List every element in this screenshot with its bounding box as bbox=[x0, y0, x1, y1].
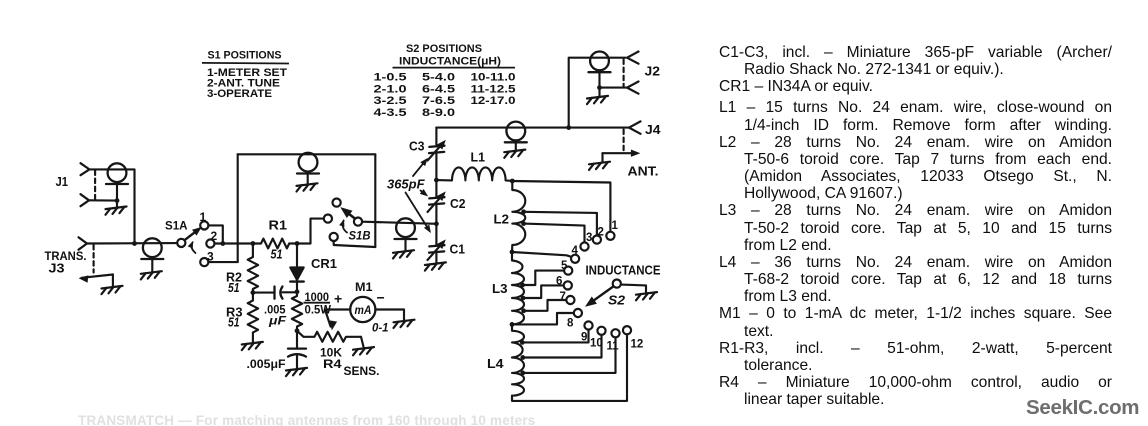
node L2 tap1 bbox=[521, 209, 526, 214]
wire S1B pole to C-chain bbox=[362, 222, 436, 224]
parts list text column bbox=[719, 44, 1112, 409]
svg-text:C3: C3 bbox=[409, 140, 425, 154]
svg-text:J3: J3 bbox=[49, 261, 65, 276]
wire C1 to ground bbox=[435, 251, 437, 262]
arrow to antenna bbox=[631, 150, 641, 157]
svg-text:51: 51 bbox=[271, 247, 283, 262]
faint caption bottom bbox=[78, 413, 536, 426]
svg-text:11: 11 bbox=[607, 341, 620, 353]
switch S1B contact 1 bbox=[333, 199, 341, 207]
svg-text:L4: L4 bbox=[487, 356, 504, 371]
resistor 1000 0.5W bbox=[292, 292, 302, 331]
top rail to J4 bbox=[436, 127, 629, 129]
node R1 left junction bbox=[251, 241, 256, 246]
wire J2 lower prong bbox=[600, 87, 628, 89]
svg-text:3: 3 bbox=[207, 250, 214, 264]
node J1 shield junction bbox=[115, 198, 120, 203]
svg-text:8: 8 bbox=[567, 318, 574, 330]
inductor L2 bbox=[512, 181, 525, 252]
ground under bus insulator bbox=[141, 271, 162, 279]
wire S1B contact3 bottom bbox=[334, 241, 376, 247]
insulator on top rail bbox=[297, 153, 319, 174]
svg-text:6: 6 bbox=[556, 276, 562, 288]
watermark bbox=[1026, 396, 1140, 420]
wire S1A contact3 stub bbox=[208, 261, 237, 263]
svg-text:6-4.5: 6-4.5 bbox=[422, 83, 455, 95]
node R1 right junction bbox=[295, 241, 300, 246]
wire L4 bottom to contact12 bbox=[512, 334, 627, 401]
wire J3 dashed shield bbox=[93, 245, 95, 273]
svg-text:CR1: CR1 bbox=[311, 256, 337, 271]
ground under C1 bbox=[425, 262, 446, 270]
switch S2 contact 7 bbox=[566, 296, 574, 304]
capacitor C2 variable bbox=[429, 197, 444, 198]
svg-text:J4: J4 bbox=[645, 122, 661, 137]
connector J1 lower prong bbox=[81, 194, 90, 206]
wire C-chain vertical top bbox=[435, 204, 437, 224]
svg-text:9: 9 bbox=[581, 332, 587, 344]
wire riser rail to S1B contact3 bbox=[374, 154, 376, 247]
wire ANT ground stem bbox=[601, 153, 603, 161]
svg-text:3-OPERATE: 3-OPERATE bbox=[207, 88, 272, 100]
wire L2-top to contact1 bbox=[512, 181, 610, 232]
insulator on J1 wire bbox=[106, 163, 128, 184]
connector J2 upper prong bbox=[627, 52, 639, 64]
svg-text:S1 POSITIONS: S1 POSITIONS bbox=[208, 50, 282, 62]
svg-text:R4: R4 bbox=[323, 357, 342, 371]
switch S2 pole contact bbox=[613, 280, 621, 288]
wire R1 to S1B contact2 bbox=[297, 219, 324, 244]
wire riser to J2 bbox=[569, 58, 626, 128]
svg-text:J2: J2 bbox=[645, 64, 661, 79]
wire L3 tap2 to contact6 bbox=[523, 285, 564, 298]
switch S1B contact 3 bbox=[330, 233, 338, 241]
wire R4 to ground bbox=[361, 337, 364, 347]
svg-text:5-4.0: 5-4.0 bbox=[422, 72, 455, 84]
svg-text:12-17.0: 12-17.0 bbox=[471, 95, 516, 107]
capacitor .005uF meter bypass bbox=[296, 331, 298, 349]
svg-text:3-2.5: 3-2.5 bbox=[374, 95, 407, 107]
wire riser S1A c3 to top rail bbox=[237, 154, 239, 262]
svg-text:+: + bbox=[334, 291, 342, 307]
switch S2 contact 11 bbox=[611, 329, 619, 337]
node J2 shield junction bbox=[597, 85, 602, 90]
svg-text:M1: M1 bbox=[355, 280, 373, 294]
wire insulator stem bbox=[515, 142, 517, 149]
wire insulator stem bbox=[116, 184, 118, 206]
label arrow 365pF to C2 bbox=[421, 191, 426, 195]
switch S1A contact 2 bbox=[206, 239, 214, 247]
svg-text:INDUCTANCE: INDUCTANCE bbox=[586, 264, 661, 278]
svg-text:51: 51 bbox=[228, 315, 240, 330]
switch S1A contact 1 bbox=[200, 221, 208, 229]
switch S2 contact 5 bbox=[564, 267, 572, 275]
svg-text:8-9.0: 8-9.0 bbox=[422, 107, 455, 119]
switch S1B rotation arrow bbox=[343, 221, 347, 233]
svg-text:5: 5 bbox=[561, 260, 568, 272]
resistor R3 bbox=[248, 293, 258, 342]
svg-text:2: 2 bbox=[598, 227, 604, 239]
wire bus from contact2 to R1 bbox=[215, 242, 253, 244]
node L2 tap2 bbox=[521, 221, 526, 226]
ground under J1 bbox=[106, 207, 127, 215]
ground under R4 bbox=[353, 347, 374, 355]
wire C3 bottom bbox=[435, 153, 437, 181]
node junction J1 drop on bus bbox=[132, 241, 137, 246]
insulator on main bus bbox=[141, 238, 163, 259]
svg-text:10-11.0: 10-11.0 bbox=[471, 72, 516, 84]
svg-text:.005μF: .005μF bbox=[247, 357, 286, 371]
wire wiper to meter bbox=[325, 308, 350, 310]
svg-text:R1: R1 bbox=[269, 218, 288, 233]
node L4 tap1 bbox=[520, 340, 525, 345]
wire L3 tap1 to contact5 bbox=[523, 271, 565, 285]
svg-text:7-6.5: 7-6.5 bbox=[422, 95, 455, 107]
node L1 junction bbox=[434, 178, 439, 183]
capacitor .005uF coupling bbox=[273, 287, 275, 299]
svg-text:7: 7 bbox=[560, 291, 566, 303]
node L1 L2 junction bbox=[510, 179, 515, 184]
svg-text:SENS.: SENS. bbox=[344, 364, 380, 378]
wire meter minus to ground bbox=[375, 310, 404, 320]
node L3 tap3 bbox=[521, 308, 526, 313]
ground under bypass cap bbox=[286, 368, 307, 376]
wire node to capacitor bbox=[253, 292, 275, 294]
arrow to transmitter bbox=[78, 274, 88, 282]
node contact1 bus junction bbox=[220, 241, 225, 246]
wire C2 to L1 node bbox=[435, 180, 437, 197]
wire C3 top to rail corner bbox=[435, 128, 437, 146]
wire L2-bottom to contact4 bbox=[512, 252, 572, 257]
node X junction bbox=[295, 289, 300, 294]
wire J4 dashed shield bbox=[623, 130, 625, 152]
wire insulator stem bbox=[598, 72, 600, 96]
node L2 L3 junction bbox=[510, 250, 515, 255]
table S1 underline bbox=[202, 62, 289, 65]
wire arrow stem down bbox=[112, 275, 114, 286]
ground under meter bbox=[394, 320, 415, 328]
insulator on J2 wire bbox=[589, 52, 611, 73]
svg-text:4-3.5: 4-3.5 bbox=[374, 107, 407, 119]
switch S1A wiper bbox=[185, 230, 199, 240]
switch S1B pole contact bbox=[354, 218, 362, 226]
wire S1A contact1 to bus bbox=[208, 225, 222, 243]
resistor R2 bbox=[248, 244, 258, 293]
ground under J2 bbox=[587, 96, 608, 104]
connector J2 lower prong bbox=[627, 82, 639, 94]
ground under R3 bbox=[242, 342, 263, 350]
diode CR1 bbox=[296, 244, 298, 268]
node L4 tap3 bbox=[520, 371, 525, 376]
switch S1A contact 3 bbox=[200, 258, 208, 266]
wire J1 lower prong to stem bbox=[89, 199, 117, 201]
wire J1 dashed shield bbox=[94, 171, 96, 200]
ground under J3 arrow bbox=[102, 286, 123, 294]
ground under S2 bbox=[636, 292, 657, 300]
svg-text:L3: L3 bbox=[492, 281, 508, 296]
svg-text:C1: C1 bbox=[450, 243, 466, 257]
svg-text:0-1: 0-1 bbox=[372, 323, 389, 335]
inductor L4 bbox=[512, 324, 524, 395]
insulator on S1B output bbox=[395, 218, 417, 239]
wire L4 tap1 to contact9 bbox=[522, 330, 588, 343]
svg-text:12: 12 bbox=[631, 339, 644, 351]
svg-text:J1: J1 bbox=[56, 174, 69, 189]
insulator on top rail right bbox=[505, 122, 527, 143]
svg-text:mA: mA bbox=[355, 303, 372, 317]
svg-text:10: 10 bbox=[590, 338, 603, 350]
wire J2 dashed shield bbox=[623, 60, 625, 87]
node L3 tap1 bbox=[520, 283, 525, 288]
switch S2 contact 1 bbox=[606, 232, 614, 240]
wire S2 pole to ground bbox=[621, 285, 646, 292]
switch S1A rotation arrow bbox=[191, 242, 195, 253]
wire to-transmitter arrow line bbox=[82, 275, 113, 278]
node meter-pot junction bbox=[295, 328, 300, 333]
wire L2 tap1 to contact2 bbox=[524, 212, 597, 236]
svg-text:L1: L1 bbox=[471, 150, 486, 165]
switch S2 contact 9 bbox=[584, 321, 592, 329]
table S2 underline bbox=[393, 67, 516, 69]
svg-text:1-0.5: 1-0.5 bbox=[374, 72, 407, 84]
ground under S1B insulator bbox=[393, 250, 414, 258]
switch S2 contact 4 bbox=[571, 255, 579, 263]
svg-text:11-12.5: 11-12.5 bbox=[471, 83, 516, 95]
inductor L1 bbox=[436, 167, 512, 181]
svg-text:365pF: 365pF bbox=[387, 177, 426, 192]
connector J3 prong bbox=[79, 237, 88, 249]
wire J1 top to corner bbox=[89, 169, 134, 243]
connector J1 upper prong bbox=[81, 163, 90, 175]
svg-text:μF: μF bbox=[268, 314, 287, 328]
inductor L3 bbox=[512, 252, 524, 324]
fraction bar 1000/0.5W bbox=[304, 302, 331, 304]
svg-text:S2: S2 bbox=[608, 293, 626, 308]
ground under ANT bbox=[589, 162, 610, 170]
wire L4 tap3 to contact11 bbox=[523, 337, 616, 373]
capacitor C3 variable bbox=[429, 146, 444, 147]
switch S1B wiper bbox=[344, 210, 356, 219]
potentiometer R4 wiper arrow bbox=[325, 310, 331, 327]
switch S2 contact 10 bbox=[597, 327, 605, 335]
svg-text:2-1.0: 2-1.0 bbox=[374, 83, 407, 95]
node J2 riser junction bbox=[566, 125, 571, 130]
svg-text:S1B: S1B bbox=[349, 229, 371, 243]
svg-text:ANT.: ANT. bbox=[628, 164, 659, 179]
label arrow 365pF to C3 bbox=[413, 161, 426, 176]
meter M1 bbox=[350, 297, 375, 322]
switch S1A pole contact bbox=[177, 239, 185, 247]
wire L2 tap2 to contact3 bbox=[524, 224, 585, 243]
wire capacitor to node X bbox=[283, 291, 298, 293]
switch S2 contact 6 bbox=[564, 281, 572, 289]
wire top rail to S1B bbox=[238, 153, 376, 155]
svg-text:3: 3 bbox=[586, 232, 592, 244]
svg-text:S2 POSITIONS: S2 POSITIONS bbox=[406, 43, 482, 55]
wire ANT line bbox=[603, 152, 637, 154]
wire main bus J3 to S1A pole bbox=[87, 242, 177, 245]
resistor R1 bbox=[253, 239, 297, 249]
switch S2 contact 12 bbox=[623, 326, 631, 334]
svg-text:4: 4 bbox=[572, 245, 579, 257]
wire insulator stem bbox=[151, 259, 153, 271]
wire L3 tap3 to contact7 bbox=[524, 300, 567, 311]
node R2 R3 junction bbox=[251, 290, 256, 295]
svg-text:0.5W: 0.5W bbox=[305, 303, 332, 317]
switch S1B contact 2 bbox=[324, 215, 332, 223]
ground under rail insulator bbox=[297, 183, 318, 191]
potentiometer R4 bbox=[297, 331, 361, 342]
node L3 tap2 bbox=[521, 296, 526, 301]
svg-text:−: − bbox=[377, 290, 385, 306]
switch S2 contact 2 bbox=[593, 236, 601, 244]
svg-text:INDUCTANCE(μH): INDUCTANCE(μH) bbox=[399, 56, 501, 68]
capacitor C1 variable bbox=[429, 245, 444, 246]
label arrow 365pF to C1 bbox=[406, 193, 430, 231]
node L4 tap2 bbox=[520, 355, 525, 360]
svg-text:1: 1 bbox=[200, 210, 207, 224]
switch S2 contact 8 bbox=[574, 309, 582, 317]
ground under rail insulator bbox=[504, 150, 525, 158]
wire insulator stem bbox=[307, 174, 309, 184]
svg-text:1: 1 bbox=[612, 220, 619, 232]
svg-text:C2: C2 bbox=[450, 197, 466, 211]
svg-text:2: 2 bbox=[211, 229, 218, 243]
svg-text:S1A: S1A bbox=[165, 219, 188, 233]
node L3 L4 junction bbox=[510, 322, 515, 327]
wire insulator stem bbox=[404, 239, 406, 250]
wire C1 top bbox=[435, 224, 437, 245]
connector J4 prong bbox=[629, 121, 641, 133]
wire L3-bottom to contact8 bbox=[512, 313, 574, 324]
svg-text:L2: L2 bbox=[494, 212, 510, 227]
node C-chain S1B junction bbox=[434, 221, 439, 226]
switch S2 wiper bbox=[589, 286, 614, 304]
svg-text:51: 51 bbox=[228, 280, 240, 295]
wire L4 tap2 to contact10 bbox=[523, 335, 602, 358]
switch S2 contact 3 bbox=[580, 242, 588, 250]
